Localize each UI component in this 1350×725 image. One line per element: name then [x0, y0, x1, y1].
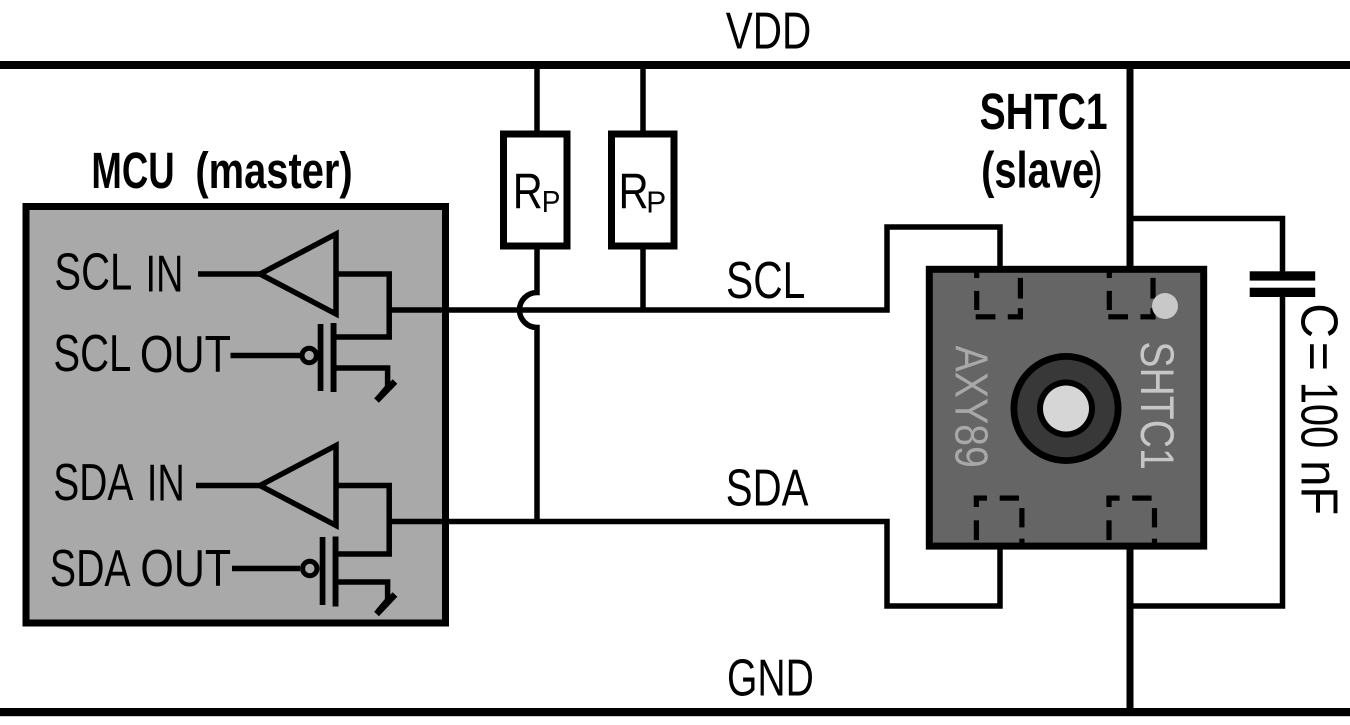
svg-text:SDA: SDA	[726, 459, 809, 517]
wire SDA OUT lead	[232, 566, 300, 572]
transistor Q1 source stub and hook	[336, 368, 388, 399]
wire VDD to capacitor top	[1130, 219, 1283, 273]
wire SDA IN lead	[196, 483, 262, 489]
wire R1 bottom with hop over SCL	[520, 249, 538, 522]
svg-text:SCL: SCL	[726, 251, 805, 309]
svg-text:(slave: (slave	[981, 142, 1094, 199]
pad bottom-left (SDA), dashed	[974, 496, 987, 501]
transistor Q2 source stub and hook	[337, 582, 388, 612]
svg-text:AXY89: AXY89	[945, 346, 997, 468]
sensor chip U3 body	[929, 269, 1203, 546]
capacitor C1 top plate	[1250, 271, 1316, 280]
wire SDA buffer stub to drain node	[336, 486, 389, 555]
svg-text:MCU: MCU	[91, 143, 174, 199]
wire SCL bus	[389, 227, 1000, 310]
wire SCL OUT lead	[231, 353, 301, 359]
svg-text:SHTC1: SHTC1	[980, 83, 1108, 140]
svg-text:P: P	[542, 185, 561, 220]
pad top-right (VDD), dashed	[1107, 272, 1112, 279]
svg-text:IN: IN	[146, 245, 184, 303]
transistor Q2 source arrow stroke	[377, 595, 396, 615]
svg-text:IN: IN	[147, 454, 185, 512]
buffer U1 (SCL input buffer)	[260, 234, 336, 314]
transistor Q1 channel bar	[331, 323, 337, 392]
pad top-left (SCL), dashed	[974, 272, 979, 279]
VDD rail	[0, 61, 1350, 69]
wire SCL buffer stub to drain node	[336, 274, 389, 337]
transistor Q2 channel bar	[333, 537, 339, 607]
sensor opening outer ring	[1011, 353, 1122, 464]
inverter bubble Q1 gate	[302, 348, 316, 362]
sensor opening inner ring	[1037, 380, 1095, 438]
sensor opening dark annulus	[1017, 360, 1114, 457]
wire R2 bottom to SCL	[640, 249, 646, 312]
svg-text:R: R	[619, 163, 649, 219]
svg-text:GND: GND	[727, 649, 814, 706]
GND rail	[0, 708, 1350, 716]
capacitor C1 bottom plate	[1250, 288, 1316, 297]
pin-1 marker dot	[1152, 293, 1178, 319]
svg-text:P: P	[646, 185, 666, 220]
svg-text:SDA: SDA	[50, 539, 131, 598]
wire VDD to sensor	[1127, 68, 1134, 269]
svg-text:SDA: SDA	[53, 453, 133, 512]
resistor R1 pull-up body	[504, 134, 568, 246]
svg-text:(master): (master)	[195, 142, 352, 199]
svg-text:=: =	[1290, 342, 1348, 371]
wire SCL IN lead	[198, 271, 262, 277]
svg-text:OUT: OUT	[140, 540, 231, 598]
wire R1 top to VDD	[534, 68, 540, 131]
svg-text:SCL: SCL	[54, 243, 132, 301]
svg-text:R: R	[513, 163, 543, 220]
resistor R2 pull-up body	[612, 134, 675, 246]
wire sensor VSS to GND	[1127, 548, 1134, 712]
pad bottom-right (VSS), dashed	[1106, 496, 1119, 501]
svg-text:VDD: VDD	[726, 2, 811, 60]
inverter bubble Q2 gate	[303, 561, 317, 575]
svg-text:OUT: OUT	[140, 326, 231, 384]
svg-text:): )	[1090, 142, 1103, 199]
svg-text:C: C	[1290, 303, 1348, 338]
svg-text:SHTC1: SHTC1	[1130, 341, 1182, 469]
transistor Q1 gate bar	[318, 324, 324, 391]
MCU (master) block box	[26, 207, 446, 624]
wire R2 top to VDD	[640, 68, 646, 131]
wire capacitor bottom to VSS	[1130, 297, 1283, 606]
svg-text:100: 100	[1290, 382, 1348, 448]
svg-text:nF: nF	[1290, 460, 1349, 515]
transistor Q1 source arrow stroke	[377, 382, 396, 401]
svg-text:SCL: SCL	[53, 324, 131, 382]
buffer U2 (SDA input buffer)	[260, 446, 336, 526]
sensor opening center disc	[1043, 386, 1089, 432]
transistor Q2 gate bar	[320, 537, 326, 605]
wire SDA bus	[389, 522, 1000, 607]
